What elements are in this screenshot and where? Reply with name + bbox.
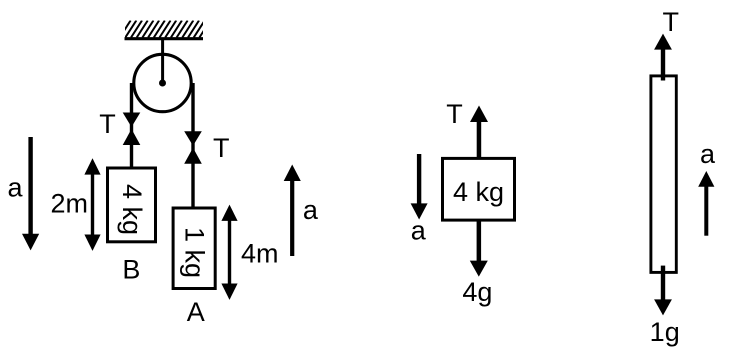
acceleration arrow a right (up) xyxy=(284,165,301,257)
svg-text:a: a xyxy=(303,195,319,225)
ceiling line xyxy=(125,37,204,40)
svg-text:T: T xyxy=(213,133,230,163)
ceiling hatch xyxy=(120,21,211,38)
svg-text:4 kg: 4 kg xyxy=(117,184,147,235)
svg-text:1g: 1g xyxy=(650,317,680,347)
block A (1 kg) xyxy=(173,208,215,289)
pulley wheel xyxy=(134,54,191,111)
force arrow 1g down (rod) xyxy=(654,266,672,316)
tension bowtie left (down head) xyxy=(123,113,141,128)
rod (1 kg body) xyxy=(651,76,676,273)
acceleration arrow a fbd (down) xyxy=(411,154,428,220)
svg-text:4g: 4g xyxy=(462,277,492,307)
svg-text:T: T xyxy=(446,99,463,129)
block B (4 kg) xyxy=(108,168,156,242)
svg-text:a: a xyxy=(700,139,716,169)
svg-text:B: B xyxy=(122,255,140,285)
acceleration arrow a rod (up) xyxy=(698,171,714,236)
wire left rope xyxy=(130,83,133,167)
svg-text:1 kg: 1 kg xyxy=(180,227,210,278)
svg-text:4m: 4m xyxy=(241,239,279,269)
tension bowtie left (up head) xyxy=(123,129,141,145)
FBD box 4 kg xyxy=(443,158,515,220)
acceleration arrow a left (down) xyxy=(22,137,39,250)
svg-text:T: T xyxy=(662,7,679,37)
svg-text:T: T xyxy=(99,109,116,139)
dimension arrow 2m xyxy=(84,158,100,251)
tension bowtie right (down head) xyxy=(184,131,202,146)
svg-text:2m: 2m xyxy=(51,189,89,219)
svg-text:a: a xyxy=(7,173,23,203)
svg-text:4 kg: 4 kg xyxy=(453,177,504,207)
support rod xyxy=(161,39,164,83)
force arrow T up (rod) xyxy=(654,34,672,81)
force arrow 4g down xyxy=(470,222,488,277)
tension bowtie right (up head) xyxy=(184,148,202,164)
pulley hub xyxy=(159,80,166,87)
force arrow T up (fbd) xyxy=(470,106,488,158)
svg-text:a: a xyxy=(411,216,427,246)
wire right rope xyxy=(191,83,194,207)
svg-text:A: A xyxy=(187,297,205,327)
dimension arrow 4m xyxy=(221,205,237,300)
